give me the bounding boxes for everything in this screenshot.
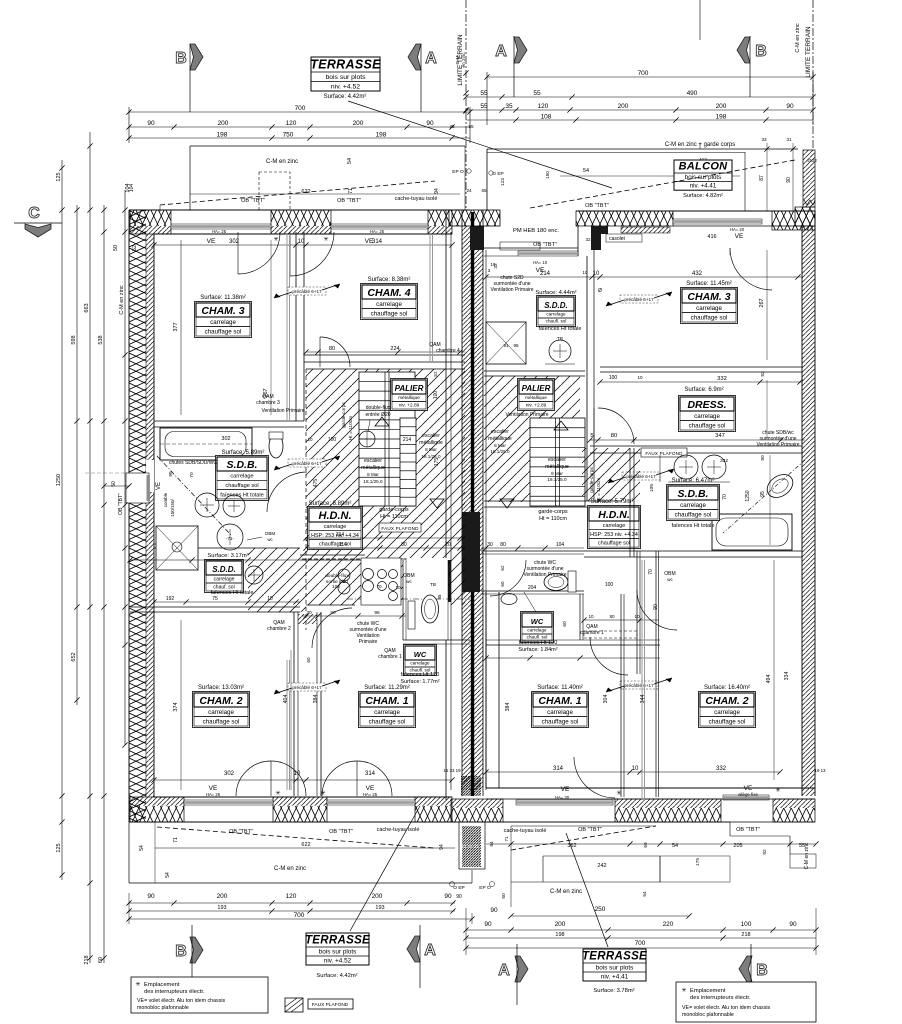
svg-text:200: 200 [372, 893, 383, 900]
svg-text:663: 663 [84, 303, 90, 312]
svg-text:2123: 2123 [807, 158, 817, 163]
svg-text:comble: comble [163, 492, 168, 507]
svg-text:cache-tuyau isolé: cache-tuyau isolé [504, 828, 547, 834]
svg-text:EP O: EP O [452, 169, 464, 175]
svg-text:bois sur plots: bois sur plots [319, 949, 357, 956]
svg-text:1250: 1250 [745, 490, 751, 501]
section marker C left [14, 205, 62, 237]
svg-text:200: 200 [716, 103, 727, 110]
svg-text:70: 70 [376, 584, 382, 589]
svg-text:OB "TBT": OB "TBT" [585, 203, 609, 209]
terrace outline bottom left [129, 822, 472, 883]
party wall center [443, 210, 500, 800]
svg-text:700: 700 [294, 912, 305, 919]
entry SDD right [490, 275, 581, 332]
WC room left walls [302, 558, 470, 644]
wall entry right vertical [583, 250, 603, 501]
svg-text:622: 622 [301, 842, 310, 848]
svg-text:A: A [495, 43, 507, 60]
faux plafond box left [379, 523, 421, 532]
wall top CHAM1 left [302, 610, 406, 619]
svg-text:C: C [28, 205, 40, 222]
wall HDN bottom [300, 532, 465, 560]
svg-text:10: 10 [632, 766, 639, 772]
svg-text:Primaire: Primaire [359, 639, 378, 645]
svg-text:10: 10 [307, 437, 313, 442]
svg-text:carrelage: carrelage [714, 709, 740, 716]
svg-text:Surface: 6.9m²: Surface: 6.9m² [684, 387, 723, 393]
svg-text:niv. +4.52: niv. +4.52 [331, 84, 360, 91]
svg-text:20: 20 [445, 542, 451, 548]
svg-text:CHAM. 4: CHAM. 4 [367, 287, 410, 299]
svg-text:carrelage: carrelage [410, 660, 430, 665]
stair texts left [307, 371, 442, 487]
wall top CHAM1 right [483, 640, 660, 661]
svg-text:VE: VE [744, 785, 753, 792]
svg-text:chauffage sol: chauffage sol [371, 310, 408, 317]
svg-text:10: 10 [395, 585, 401, 590]
svg-text:métallique: métallique [419, 440, 443, 446]
svg-text:LIMITE TERRAIN: LIMITE TERRAIN [805, 26, 812, 77]
svg-text:niv. +2.89: niv. +2.89 [399, 402, 420, 408]
svg-text:chauffage sol: chauffage sol [225, 483, 258, 489]
svg-text:bois sur plots: bois sur plots [685, 174, 721, 181]
svg-text:cache-tuyau isolé: cache-tuyau isolé [377, 827, 420, 833]
svg-text:TERRASSE: TERRASSE [310, 58, 381, 72]
wall DRESS bottom [587, 433, 805, 461]
texts QAM chambre [256, 342, 549, 418]
svg-text:92: 92 [760, 371, 766, 377]
svg-text:Surface: 5.79m²: Surface: 5.79m² [591, 499, 634, 505]
door arc DRESS [594, 408, 634, 444]
hatch strip right HDN [582, 448, 640, 501]
svg-text:VE: VE [207, 238, 216, 245]
svg-text:302: 302 [221, 436, 230, 442]
washbasins OBM left [332, 558, 415, 605]
svg-text:OB "TBT": OB "TBT" [578, 827, 602, 833]
svg-text:chambre 2: chambre 2 [267, 626, 291, 632]
door arc HDN left [312, 608, 352, 648]
svg-text:218: 218 [741, 932, 750, 938]
toilet left SDB [269, 432, 283, 458]
svg-text:carrelage: carrelage [680, 502, 706, 509]
precables right [606, 292, 674, 692]
stairs left flight [359, 372, 415, 506]
door arc CHAM4 inner [320, 337, 350, 367]
svg-text:200: 200 [217, 893, 228, 900]
svg-text:carrelage: carrelage [214, 576, 235, 582]
svg-text:Ht = 110cm: Ht = 110cm [348, 416, 354, 440]
svg-text:HSP: 253 niv. +4.34: HSP: 253 niv. +4.34 [590, 532, 638, 538]
svg-text:Surface: 3.78m²: Surface: 3.78m² [593, 988, 634, 994]
svg-text:70: 70 [648, 569, 654, 575]
svg-text:C-M en zinc: C-M en zinc [550, 889, 582, 895]
svg-text:sortie Ø20: sortie Ø20 [326, 579, 348, 585]
section marker B top-left [175, 44, 203, 112]
wall SDB bottom [154, 544, 300, 548]
dim interior bottom right [443, 766, 826, 775]
svg-text:précâblé 6+17: précâblé 6+17 [292, 289, 322, 294]
wall CHAM3 bottom [154, 421, 304, 427]
svg-text:FAUX PLAFOND: FAUX PLAFOND [645, 451, 683, 456]
washbasin SDD circle [217, 524, 275, 584]
svg-text:bois sur plots: bois sur plots [325, 74, 366, 81]
duct CHAM1-2 right [562, 551, 659, 800]
svg-text:TERRASSE: TERRASSE [582, 951, 647, 963]
svg-text:FAUX PLAFOND: FAUX PLAFOND [312, 1002, 349, 1008]
svg-text:chauffage sol: chauffage sol [709, 718, 746, 725]
svg-text:700: 700 [295, 105, 306, 112]
svg-text:précâblé 6+17: précâblé 6+17 [624, 683, 654, 688]
svg-text:escalier: escalier [548, 457, 566, 463]
svg-text:50: 50 [501, 893, 507, 899]
svg-text:chauffage sol: chauffage sol [598, 541, 630, 547]
svg-text:87: 87 [759, 175, 765, 181]
door arc CHAM2 [236, 761, 306, 796]
svg-text:32: 32 [586, 237, 591, 242]
room label HDN left [308, 501, 363, 550]
chutes text [163, 460, 217, 517]
wall CHAM3 right [296, 232, 304, 421]
svg-text:90: 90 [147, 120, 155, 127]
svg-text:90: 90 [789, 921, 797, 928]
svg-text:31: 31 [786, 137, 792, 142]
svg-text:B: B [175, 943, 187, 960]
svg-text:218: 218 [84, 955, 90, 964]
svg-text:10: 10 [593, 271, 600, 277]
svg-text:750: 750 [283, 132, 294, 139]
window VE bottom-2 [327, 785, 415, 805]
svg-text:faïences Ht 120: faïences Ht 120 [401, 672, 440, 678]
svg-text:wc: wc [667, 577, 673, 582]
svg-text:bois sur plots: bois sur plots [596, 965, 634, 972]
svg-text:chauffage sol: chauffage sol [691, 314, 728, 321]
svg-text:90: 90 [484, 921, 492, 928]
dimension chain left outer 1 [56, 160, 65, 880]
vertical dims right unit inner [745, 380, 770, 545]
stair zone left hatch [248, 369, 465, 796]
svg-text:chambre 1: chambre 1 [378, 654, 402, 660]
svg-text:HA= 25: HA= 25 [363, 792, 378, 797]
svg-text:374: 374 [173, 702, 179, 711]
svg-text:100: 100 [609, 375, 618, 381]
svg-text:A: A [425, 50, 437, 67]
svg-text:garde-corps: garde-corps [341, 402, 347, 428]
svg-text:242: 242 [597, 863, 606, 869]
svg-text:OB "TBT": OB "TBT" [337, 198, 361, 204]
svg-text:71: 71 [348, 188, 354, 194]
svg-text:TERRASSE: TERRASSE [305, 935, 370, 947]
svg-text:carrelage: carrelage [696, 305, 722, 312]
door arc CHAM1 left [322, 761, 392, 796]
chute line SDB [157, 456, 232, 536]
svg-text:HA= 25: HA= 25 [370, 229, 385, 234]
balcony right pier [795, 150, 817, 226]
door arc CHAM2 right [637, 590, 677, 630]
door arc SDB left [267, 472, 307, 512]
stairs left flight2 [400, 418, 444, 508]
dimension chain left outer 5 [119, 184, 135, 748]
svg-text:garde-corps: garde-corps [538, 509, 568, 515]
svg-text:1250: 1250 [56, 474, 62, 486]
svg-text:Emplacement: Emplacement [144, 982, 180, 988]
svg-text:WC: WC [531, 617, 544, 626]
svg-text:carrelage: carrelage [546, 311, 566, 316]
svg-text:Ventilation Primaire: Ventilation Primaire [756, 442, 799, 448]
svg-text:Ventilation Primaire: Ventilation Primaire [523, 572, 566, 578]
svg-text:60: 60 [98, 957, 104, 963]
dims vertical CHAM left [173, 620, 319, 790]
svg-text:casolet: casolet [609, 236, 625, 242]
svg-text:71: 71 [173, 837, 179, 843]
dims vertical CHAM right [505, 560, 790, 780]
svg-text:Surface: 11.40m²: Surface: 11.40m² [537, 685, 583, 691]
svg-text:EP O: EP O [479, 885, 491, 891]
svg-text:OB "TBT": OB "TBT" [229, 829, 253, 835]
svg-text:490: 490 [687, 90, 698, 97]
svg-text:332: 332 [717, 376, 727, 382]
svg-text:OB "TBT": OB "TBT" [118, 493, 124, 515]
svg-text:120: 120 [286, 120, 297, 127]
room label CHAM 1 left [359, 685, 416, 728]
wall CHAM4 bottom [303, 346, 465, 362]
svg-text:75: 75 [212, 596, 218, 602]
svg-text:Surface: 3.17m²: Surface: 3.17m² [207, 553, 248, 559]
wall top left unit [129, 210, 470, 243]
svg-text:50: 50 [113, 245, 119, 251]
svg-text:monobloc plafonnable: monobloc plafonnable [137, 1005, 189, 1011]
svg-text:104: 104 [556, 542, 565, 548]
svg-text:494: 494 [766, 675, 772, 684]
svg-text:Surface: 11.45m²: Surface: 11.45m² [686, 281, 732, 287]
balcony outline [487, 137, 798, 211]
SDB right walls [584, 448, 802, 557]
svg-text:chauffage sol: chauffage sol [675, 511, 712, 518]
svg-text:chauffage sol: chauffage sol [203, 718, 240, 725]
svg-text:✳: ✳ [275, 790, 280, 797]
svg-text:chambre 3: chambre 3 [256, 400, 280, 406]
stair texts right [488, 375, 643, 502]
svg-text:80: 80 [611, 433, 617, 439]
svg-text:HA= 30: HA= 30 [555, 795, 570, 800]
svg-text:chaufl. sol: chaufl. sol [546, 318, 567, 323]
dim interior top right [483, 262, 802, 280]
svg-text:carrelage: carrelage [376, 301, 402, 308]
svg-text:CHAM. 2: CHAM. 2 [705, 695, 748, 707]
svg-text:OB "TBT": OB "TBT" [241, 198, 265, 204]
room label CHAM 2 right [699, 685, 756, 728]
svg-text:432: 432 [692, 271, 703, 277]
svg-text:60: 60 [306, 657, 311, 663]
bathtub right [712, 514, 792, 550]
svg-text:VE= volet électr. Alu ton idem: VE= volet électr. Alu ton idem chassis [137, 998, 226, 1004]
svg-text:55: 55 [533, 90, 541, 97]
svg-text:métallique: métallique [525, 395, 547, 401]
room label CHAM 3 right [681, 281, 738, 324]
svg-text:FAUX PLAFOND: FAUX PLAFOND [381, 526, 419, 531]
svg-text:267: 267 [759, 298, 765, 307]
svg-text:90: 90 [426, 120, 434, 127]
svg-text:193: 193 [375, 905, 384, 911]
svg-text:332: 332 [720, 458, 728, 464]
svg-text:54: 54 [347, 158, 353, 164]
svg-text:A: A [424, 942, 436, 959]
svg-text:80: 80 [329, 346, 335, 352]
svg-text:175: 175 [695, 858, 701, 866]
svg-text:S.D.D.: S.D.D. [544, 301, 568, 310]
legend faux plafond [285, 998, 353, 1012]
svg-text:Ht = 110cm: Ht = 110cm [380, 514, 408, 520]
upper slab left unit [125, 146, 465, 210]
shower SDD right [486, 322, 526, 364]
svg-text:double-flux: double-flux [325, 573, 349, 579]
svg-text:60: 60 [562, 621, 568, 627]
svg-text:175: 175 [434, 458, 440, 467]
svg-text:70: 70 [189, 472, 195, 478]
svg-text:C-M en zinc: C-M en zinc [804, 842, 810, 869]
svg-text:chaufl. sol: chaufl. sol [527, 634, 548, 639]
svg-text:70: 70 [722, 494, 728, 500]
svg-text:344: 344 [640, 695, 646, 704]
svg-text:précâblé 6+17: précâblé 6+17 [292, 461, 322, 466]
wall bottom left unit [129, 790, 455, 822]
svg-text:Surface: 5.89m²: Surface: 5.89m² [222, 450, 265, 456]
window VE top-2 [331, 224, 428, 245]
svg-text:CHAM. 3: CHAM. 3 [201, 305, 244, 317]
svg-text:125: 125 [56, 172, 62, 181]
svg-text:✳: ✳ [616, 789, 622, 797]
svg-text:314: 314 [365, 771, 376, 777]
svg-text:CHAM. 1: CHAM. 1 [538, 695, 581, 707]
garde corps text [379, 507, 409, 520]
svg-text:52: 52 [433, 371, 438, 377]
svg-text:18.1/25.0: 18.1/25.0 [490, 449, 510, 454]
limite terrain right line [700, 0, 813, 150]
svg-text:314: 314 [372, 239, 383, 245]
washbasin TB right [545, 336, 575, 364]
wall bottom right unit [451, 785, 815, 822]
svg-text:B: B [175, 50, 187, 67]
svg-text:52: 52 [132, 245, 138, 251]
window VE left wall [85, 473, 162, 515]
room label SDB left [216, 450, 269, 500]
svg-text:19 13: 19 13 [815, 768, 827, 773]
svg-text:OB "TBT": OB "TBT" [736, 827, 760, 833]
svg-text:214: 214 [540, 271, 551, 277]
svg-text:CHAM. 3: CHAM. 3 [687, 291, 730, 303]
room label WC left [400, 645, 439, 686]
svg-text:62: 62 [500, 565, 505, 571]
svg-text:PALIER: PALIER [522, 384, 551, 393]
svg-text:18.1/25.0: 18.1/25.0 [547, 477, 567, 482]
svg-text:HA= 10: HA= 10 [533, 260, 548, 265]
svg-text:C-M en zinc: C-M en zinc [795, 23, 801, 53]
svg-text:95: 95 [437, 594, 442, 599]
svg-text:faïences Ht totale: faïences Ht totale [672, 523, 715, 529]
svg-text:BALCON: BALCON [679, 161, 729, 173]
svg-text:92: 92 [762, 849, 768, 855]
svg-text:OB "TBT": OB "TBT" [533, 242, 557, 248]
wall right exterior [802, 211, 815, 796]
svg-text:334: 334 [784, 672, 790, 681]
svg-text:HA= 25: HA= 25 [206, 792, 221, 797]
svg-text:200: 200 [218, 120, 229, 127]
svg-text:Surface: 8.38m²: Surface: 8.38m² [368, 277, 411, 283]
svg-text:10: 10 [490, 262, 496, 267]
svg-text:carrelage: carrelage [208, 709, 234, 716]
door arc CHAM1 right [574, 637, 628, 798]
svg-text:escalier: escalier [422, 433, 440, 439]
svg-text:S.D.B.: S.D.B. [678, 488, 709, 500]
svg-text:Ht = 110cm: Ht = 110cm [539, 516, 567, 522]
wall under SDD [130, 596, 300, 612]
svg-text:C-M en zinc: C-M en zinc [119, 285, 125, 315]
dimension chain left outer 2 [71, 205, 80, 705]
svg-text:O EP: O EP [453, 885, 464, 891]
credaille gray lines left [287, 234, 433, 790]
window VE bottom-1 [184, 785, 273, 805]
svg-text:700: 700 [635, 940, 646, 947]
svg-text:C-M en zinc: C-M en zinc [266, 159, 298, 165]
svg-text:Surface: 13.03m²: Surface: 13.03m² [198, 685, 244, 691]
svg-text:CHAM. 1: CHAM. 1 [365, 695, 408, 707]
svg-text:Surface: 6.47m²: Surface: 6.47m² [672, 478, 715, 484]
svg-text:475: 475 [313, 479, 319, 488]
svg-text:des interrupteurs électr.: des interrupteurs électr. [144, 989, 205, 995]
svg-text:198: 198 [217, 132, 228, 139]
door arc CHAM3 right [730, 248, 772, 290]
dim 377 vertical [173, 240, 271, 415]
svg-text:carrelage: carrelage [547, 709, 573, 716]
svg-text:chauffage sol: chauffage sol [689, 422, 726, 429]
svg-text:VE= volet électr. Alu ton idem: VE= volet électr. Alu ton idem chassis [682, 1005, 771, 1011]
svg-text:700: 700 [638, 70, 649, 77]
vent circle [359, 405, 391, 447]
stairs right flight [500, 418, 585, 508]
EP labels top center [449, 52, 503, 193]
dim row mid left [127, 557, 300, 562]
svg-text:200: 200 [555, 921, 566, 928]
svg-text:538: 538 [98, 335, 104, 344]
svg-text:90: 90 [760, 455, 766, 461]
faux plafond box right [641, 448, 687, 457]
svg-text:H.D.N.: H.D.N. [598, 509, 630, 521]
room label SDD left [205, 553, 254, 596]
svg-text:100: 100 [741, 921, 752, 928]
svg-text:332: 332 [716, 766, 727, 772]
svg-text:✳: ✳ [323, 236, 328, 243]
svg-text:10: 10 [583, 270, 588, 275]
svg-text:95: 95 [760, 491, 766, 497]
svg-text:347: 347 [715, 433, 725, 439]
room label CHAM 2 left [193, 685, 250, 728]
wall left exterior [129, 210, 154, 822]
svg-text:faïences Ht totale: faïences Ht totale [211, 590, 254, 596]
svg-text:30: 30 [487, 542, 493, 548]
svg-text:carrelage: carrelage [694, 413, 720, 420]
svg-text:377: 377 [173, 322, 179, 331]
svg-text:150: 150 [545, 171, 550, 179]
svg-text:55: 55 [481, 188, 487, 193]
svg-text:en zinc: en zinc [461, 52, 467, 68]
svg-text:80: 80 [401, 542, 407, 548]
svg-text:302: 302 [224, 771, 235, 777]
texts chute WC right [523, 560, 659, 638]
svg-text:double-flux: double-flux [366, 405, 391, 411]
svg-text:monobloc plafonnable: monobloc plafonnable [682, 1012, 734, 1018]
svg-text:carrelage: carrelage [230, 474, 253, 480]
svg-text:DRESS.: DRESS. [687, 399, 726, 411]
